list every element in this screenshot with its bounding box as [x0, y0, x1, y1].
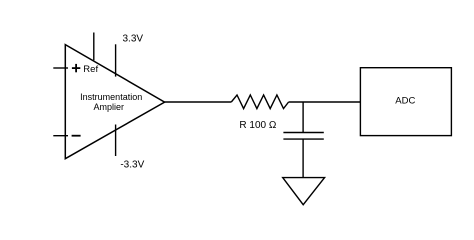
wire: node to capacitor top plate	[302, 102, 304, 133]
wire: amplifier output to resistor R	[165, 101, 232, 103]
-3.3V supply pin	[115, 125, 117, 157]
wire: inverting input stub	[53, 135, 68, 137]
svg-text:R 100 Ω: R 100 Ω	[239, 120, 276, 131]
op-amp label "Instrumentation Amplier"	[80, 92, 142, 112]
minus mark (inverting input)	[72, 135, 81, 137]
svg-text:ADC: ADC	[395, 95, 415, 106]
wire: capacitor bottom plate to ground	[302, 139, 304, 178]
svg-text:Amplier: Amplier	[94, 102, 125, 112]
svg-text:Instrumentation: Instrumentation	[80, 92, 142, 102]
svg-text:3.3V: 3.3V	[123, 33, 144, 44]
3.3V supply pin	[115, 44, 117, 76]
wire: non-inverting input stub	[53, 67, 68, 69]
resistor R 100 ohm	[231, 95, 288, 109]
ground	[283, 178, 325, 205]
ADC block	[360, 68, 451, 136]
op-amp U1 instrumentation amplifier body	[65, 45, 164, 159]
plus mark (non-inverting input)	[72, 64, 80, 72]
capacitor C1	[283, 133, 323, 140]
svg-text:Ref: Ref	[83, 64, 98, 75]
svg-text:-3.3V: -3.3V	[120, 159, 144, 170]
wire: resistor to ADC input, node at capacitor tap	[289, 101, 361, 103]
Ref pin	[93, 33, 95, 61]
